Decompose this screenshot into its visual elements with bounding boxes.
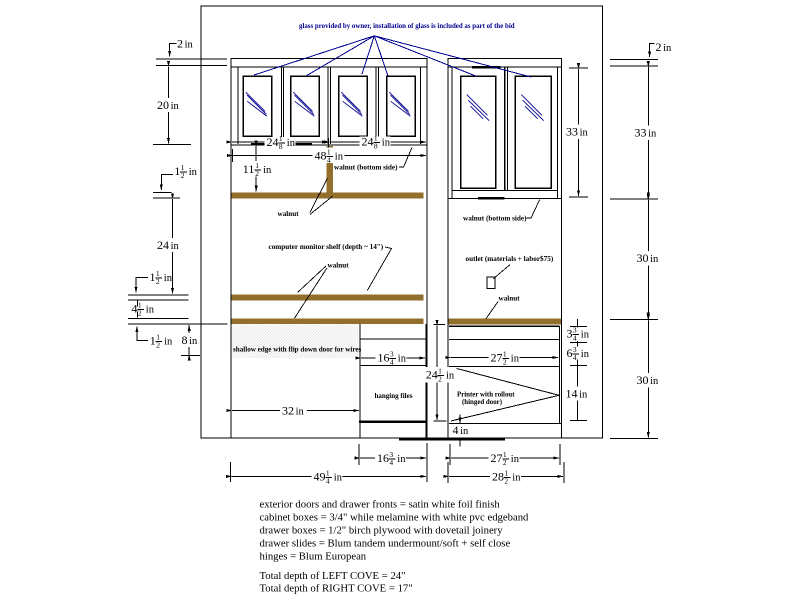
- svg-text:walnut (bottom side): walnut (bottom side): [334, 164, 398, 172]
- svg-text:4: 4: [132, 301, 138, 315]
- svg-text:drawer boxes = 1/2" birch plyw: drawer boxes = 1/2" birch plywood with d…: [260, 524, 504, 536]
- svg-text:in: in: [171, 241, 180, 252]
- svg-text:in: in: [146, 304, 155, 315]
- svg-text:2: 2: [177, 36, 183, 50]
- svg-text:(hinged door): (hinged door): [462, 399, 502, 406]
- svg-text:49: 49: [314, 470, 326, 484]
- svg-text:33: 33: [566, 125, 578, 139]
- svg-text:24: 24: [362, 135, 374, 149]
- svg-text:in: in: [397, 454, 406, 465]
- svg-text:walnut: walnut: [328, 262, 350, 270]
- svg-text:in: in: [663, 43, 672, 54]
- svg-text:2: 2: [181, 171, 185, 180]
- svg-text:exterior doors and drawer fron: exterior doors and drawer fronts = satin…: [260, 498, 501, 510]
- svg-text:4: 4: [390, 358, 394, 367]
- svg-text:4: 4: [573, 333, 577, 342]
- svg-text:in: in: [296, 407, 305, 418]
- svg-text:in: in: [511, 454, 520, 465]
- svg-text:Total depth of RIGHT COVE = 17: Total depth of RIGHT COVE = 17": [260, 583, 413, 595]
- svg-text:6: 6: [567, 346, 573, 360]
- svg-text:in: in: [579, 390, 588, 401]
- svg-text:32: 32: [282, 404, 294, 418]
- svg-text:in: in: [511, 354, 520, 365]
- svg-text:30: 30: [637, 373, 649, 387]
- svg-text:20: 20: [157, 98, 169, 112]
- svg-text:2: 2: [156, 340, 160, 349]
- svg-text:2: 2: [255, 169, 259, 178]
- svg-text:walnut: walnut: [499, 295, 521, 303]
- svg-text:in: in: [460, 426, 469, 437]
- svg-text:in: in: [648, 129, 657, 140]
- svg-text:4: 4: [573, 353, 577, 362]
- svg-text:2: 2: [156, 277, 160, 286]
- svg-text:30: 30: [637, 251, 649, 265]
- svg-text:in: in: [164, 273, 173, 284]
- svg-text:2: 2: [503, 358, 507, 367]
- svg-text:1: 1: [150, 270, 156, 284]
- svg-text:in: in: [650, 254, 659, 265]
- svg-text:in: in: [171, 101, 180, 112]
- svg-text:walnut: walnut: [278, 210, 300, 218]
- svg-text:hinges = Blum European: hinges = Blum European: [260, 550, 367, 562]
- svg-text:16: 16: [378, 350, 390, 364]
- svg-text:in: in: [398, 353, 407, 364]
- svg-text:2: 2: [504, 477, 508, 486]
- svg-text:in: in: [650, 376, 659, 387]
- svg-text:Printer with rollout: Printer with rollout: [457, 392, 515, 399]
- svg-text:8: 8: [374, 142, 378, 151]
- svg-text:glass provided by owner, insta: glass provided by owner, installation of…: [299, 23, 515, 30]
- svg-text:2: 2: [656, 40, 662, 54]
- svg-text:in: in: [382, 138, 391, 149]
- svg-text:in: in: [189, 167, 198, 178]
- svg-text:cabinet boxes = 3/4" while mel: cabinet boxes = 3/4" while melamine with…: [260, 511, 530, 523]
- svg-text:4: 4: [389, 458, 393, 467]
- svg-text:4: 4: [327, 155, 331, 164]
- svg-text:8: 8: [182, 333, 188, 347]
- svg-text:48: 48: [315, 148, 327, 162]
- svg-text:in: in: [512, 473, 521, 484]
- svg-text:1: 1: [174, 164, 180, 178]
- svg-text:hanging files: hanging files: [375, 392, 413, 400]
- svg-text:27: 27: [491, 451, 503, 465]
- svg-text:in: in: [263, 165, 272, 176]
- svg-text:16: 16: [377, 451, 389, 465]
- svg-text:in: in: [287, 138, 296, 149]
- svg-text:11: 11: [243, 162, 255, 176]
- svg-text:1: 1: [150, 333, 156, 347]
- svg-text:Total depth of LEFT COVE = 24": Total depth of LEFT COVE = 24": [260, 570, 406, 582]
- svg-text:in: in: [581, 329, 590, 340]
- svg-text:walnut (bottom side): walnut (bottom side): [463, 215, 527, 223]
- svg-text:8: 8: [279, 142, 283, 151]
- svg-text:28: 28: [492, 470, 504, 484]
- svg-text:27: 27: [491, 351, 503, 365]
- svg-text:2: 2: [138, 308, 142, 317]
- svg-text:14: 14: [566, 387, 578, 401]
- svg-text:2: 2: [438, 375, 442, 384]
- svg-text:in: in: [580, 128, 589, 139]
- svg-text:in: in: [446, 371, 455, 382]
- svg-text:in: in: [185, 39, 194, 50]
- svg-text:4: 4: [453, 423, 459, 437]
- svg-text:computer monitor shelf (depth: computer monitor shelf (depth ~ 14"): [269, 243, 384, 251]
- svg-text:in: in: [335, 151, 344, 162]
- svg-text:4: 4: [326, 477, 330, 486]
- svg-text:24: 24: [426, 368, 438, 382]
- svg-text:outlet (materials + labor$75): outlet (materials + labor$75): [466, 255, 554, 263]
- svg-text:24: 24: [157, 238, 169, 252]
- svg-text:2: 2: [503, 458, 507, 467]
- svg-text:drawer slides = Blum tandem un: drawer slides = Blum tandem undermount/s…: [260, 537, 511, 549]
- svg-text:shallow edge with flip down do: shallow edge with flip down door for wir…: [233, 345, 362, 353]
- svg-text:33: 33: [635, 126, 647, 140]
- svg-text:3: 3: [567, 326, 573, 340]
- svg-text:in: in: [581, 349, 590, 360]
- svg-text:in: in: [189, 336, 198, 347]
- svg-text:in: in: [334, 473, 343, 484]
- svg-text:in: in: [164, 336, 173, 347]
- svg-text:24: 24: [267, 135, 279, 149]
